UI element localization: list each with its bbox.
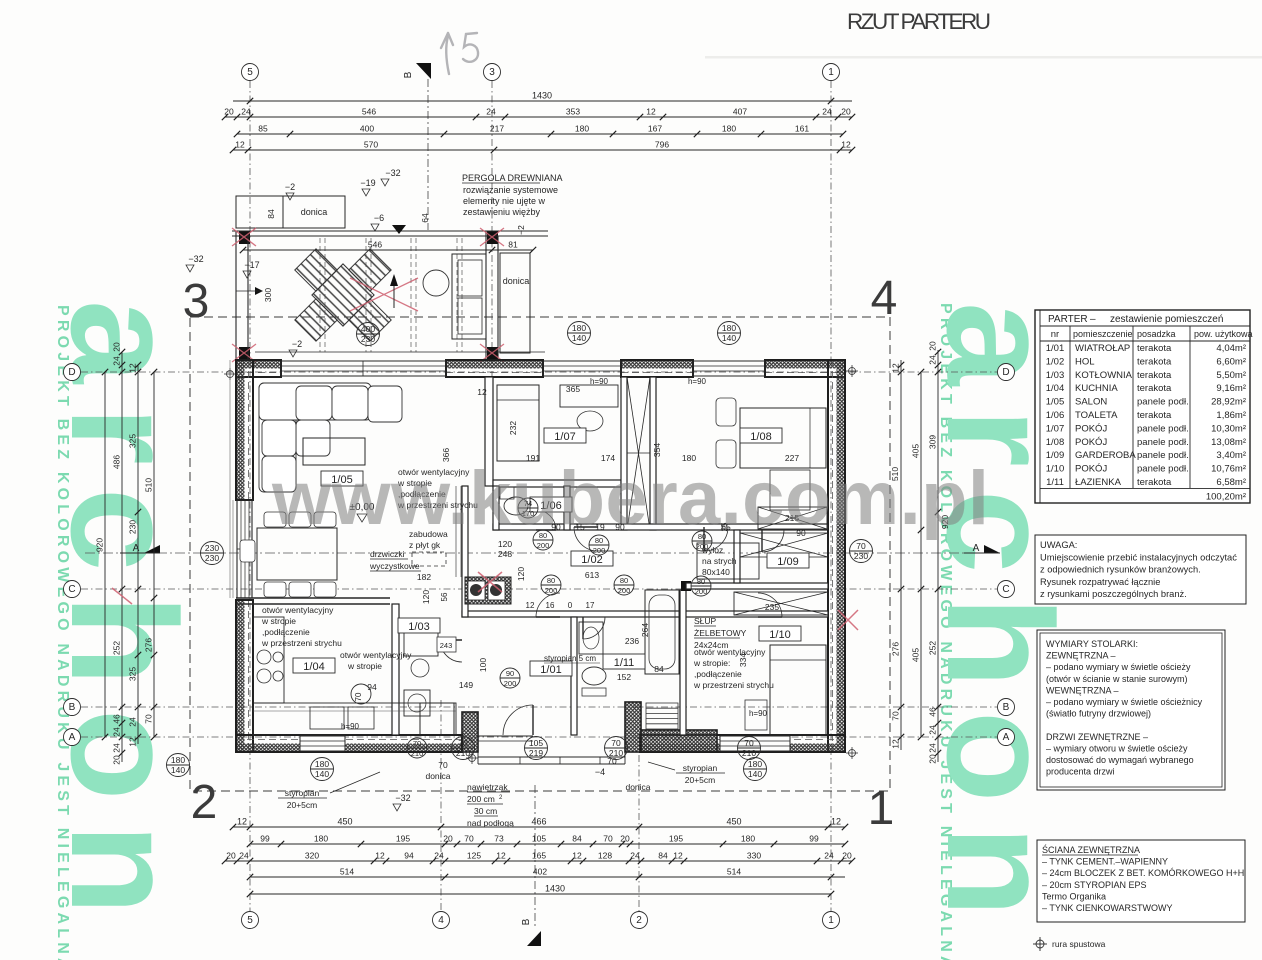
svg-text:1/04: 1/04 — [1046, 383, 1065, 394]
svg-text:230: 230 — [205, 553, 219, 563]
svg-text:1/09: 1/09 — [1046, 450, 1065, 461]
svg-text:264: 264 — [640, 623, 650, 637]
svg-text:140: 140 — [748, 769, 762, 779]
svg-text:796: 796 — [655, 140, 669, 150]
concrete column slup — [681, 581, 691, 591]
svg-text:514: 514 — [727, 867, 741, 877]
svg-text:PERGOLA DREWNIANA: PERGOLA DREWNIANA — [462, 173, 563, 183]
svg-text:−19: −19 — [360, 178, 375, 188]
pergola posts — [239, 231, 250, 244]
svg-text:1/08: 1/08 — [1046, 437, 1065, 448]
svg-text:252: 252 — [928, 641, 938, 655]
svg-text:20: 20 — [443, 834, 453, 844]
svg-text:70: 70 — [744, 738, 754, 748]
svg-text:w przestrzeni strychu: w przestrzeni strychu — [261, 638, 342, 648]
svg-text:320: 320 — [305, 851, 319, 861]
door kotlownia — [440, 640, 462, 662]
svg-text:200 cm: 200 cm — [467, 794, 495, 804]
svg-text:1/08: 1/08 — [750, 431, 771, 443]
svg-text:nawietrzak: nawietrzak — [467, 782, 508, 792]
svg-text:12: 12 — [526, 601, 535, 610]
svg-text:180: 180 — [748, 759, 762, 769]
svg-text:140: 140 — [572, 333, 586, 343]
svg-text:80x140: 80x140 — [702, 567, 730, 577]
svg-text:1/10: 1/10 — [769, 629, 790, 641]
svg-text:KUCHNIA: KUCHNIA — [1075, 383, 1118, 394]
svg-text:C: C — [1002, 584, 1009, 595]
pergola donica upper — [236, 196, 283, 228]
svg-text:24: 24 — [112, 727, 122, 737]
svg-text:4,04m²: 4,04m² — [1216, 343, 1246, 354]
svg-text:219: 219 — [529, 748, 543, 758]
section marker A right — [984, 545, 1000, 553]
svg-text:70: 70 — [354, 692, 363, 701]
svg-text:3: 3 — [489, 67, 495, 78]
pergola dimension 546 — [243, 249, 533, 251]
svg-text:10,76m²: 10,76m² — [1211, 464, 1246, 475]
svg-text:h=90: h=90 — [688, 377, 707, 386]
svg-text:WYMIARY STOLARKI:: WYMIARY STOLARKI: — [1046, 639, 1138, 649]
svg-text:24: 24 — [128, 717, 138, 727]
svg-text:B: B — [403, 71, 414, 78]
grid bubble 5 top — [242, 64, 259, 81]
toilet 1/06 wc — [504, 497, 528, 515]
room label 1/02 — [571, 551, 613, 566]
svg-text:terakota: terakota — [1137, 383, 1172, 394]
room label 1/08 — [740, 428, 782, 443]
svg-text:94: 94 — [404, 851, 414, 861]
svg-text:309: 309 — [928, 435, 938, 449]
svg-text:otwór wentylacyjny: otwór wentylacyjny — [340, 650, 412, 660]
svg-text:UWAGA:: UWAGA: — [1040, 540, 1077, 550]
svg-text:10,30m²: 10,30m² — [1211, 423, 1246, 434]
svg-text:w stropie: w stropie — [347, 661, 382, 671]
svg-text:80: 80 — [697, 577, 705, 586]
svg-text:1,86m²: 1,86m² — [1216, 410, 1246, 421]
svg-text:5: 5 — [247, 67, 253, 78]
svg-text:70: 70 — [891, 711, 901, 721]
grid bubble C left — [64, 581, 81, 598]
dimension column right 1 — [900, 360, 902, 750]
svg-text:46: 46 — [112, 714, 122, 724]
svg-text:1/04: 1/04 — [303, 661, 324, 673]
svg-text:152: 152 — [617, 672, 631, 682]
grid bubble C right — [998, 581, 1015, 598]
svg-text:236: 236 — [625, 636, 639, 646]
svg-text:12: 12 — [841, 140, 851, 150]
svg-text:514: 514 — [340, 867, 354, 877]
svg-text:407: 407 — [733, 107, 747, 117]
svg-text:325: 325 — [128, 667, 138, 681]
svg-text:546: 546 — [368, 240, 382, 250]
svg-text:16: 16 — [546, 601, 555, 610]
room label 1/10 — [759, 626, 801, 641]
grid bubble B left — [64, 699, 81, 716]
svg-text:405: 405 — [911, 648, 921, 662]
svg-text:z rysunkami poszczególnych bra: z rysunkami poszczególnych branż. — [1040, 589, 1187, 599]
svg-text:12: 12 — [673, 851, 683, 861]
svg-text:450: 450 — [337, 817, 352, 827]
svg-text:12: 12 — [831, 817, 841, 827]
svg-text:210: 210 — [411, 749, 424, 758]
svg-text:180: 180 — [572, 323, 586, 333]
svg-text:–: – — [1090, 314, 1096, 325]
svg-text:producenta drzwi: producenta drzwi — [1046, 767, 1115, 777]
svg-text:276: 276 — [891, 642, 901, 656]
door 1/07 — [574, 527, 598, 551]
svg-text:105: 105 — [532, 834, 546, 844]
grid bubble D right — [998, 364, 1015, 381]
svg-text:1/02: 1/02 — [1046, 356, 1065, 367]
svg-text:210: 210 — [609, 748, 623, 758]
svg-text:230: 230 — [854, 551, 868, 561]
svg-text:20: 20 — [112, 755, 122, 765]
corridor bottom wall — [462, 611, 828, 617]
garderoba 1/09 rod — [740, 533, 828, 557]
svg-text:0: 0 — [568, 601, 573, 610]
svg-text:70: 70 — [144, 714, 154, 724]
svg-text:120: 120 — [516, 567, 526, 581]
svg-text:nr: nr — [1051, 329, 1059, 340]
svg-text:140: 140 — [171, 765, 185, 775]
svg-text:PARTER: PARTER — [1048, 314, 1088, 325]
svg-text:pow. użytkowa: pow. użytkowa — [1194, 329, 1253, 339]
dimension row bottom 3 — [225, 860, 852, 862]
svg-text:−2: −2 — [285, 182, 295, 192]
svg-text:84: 84 — [658, 851, 668, 861]
section marker A left — [144, 545, 160, 553]
note box SCIANA ZEWNETRZNA — [1037, 840, 1245, 922]
duct lines — [455, 486, 457, 577]
svg-text:,podłączenie: ,podłączenie — [262, 627, 310, 637]
dimension row top 4 — [233, 149, 852, 151]
svg-text:na strych: na strych — [702, 556, 737, 566]
svg-text:rozwiązanie systemowe: rozwiązanie systemowe — [463, 185, 558, 195]
svg-text:styropian: styropian — [285, 788, 320, 798]
svg-text:terakota: terakota — [1137, 370, 1172, 381]
door 1/09 — [762, 530, 784, 552]
svg-text:20: 20 — [842, 851, 852, 861]
svg-text:rura spustowa: rura spustowa — [1052, 939, 1106, 949]
room label 1/05 — [321, 471, 363, 486]
svg-text:165: 165 — [532, 851, 546, 861]
svg-text:90: 90 — [506, 669, 514, 678]
room 1/07 desk — [560, 385, 618, 407]
grid bubble 5 bottom — [242, 912, 259, 929]
svg-text:9,16m²: 9,16m² — [1216, 383, 1246, 394]
svg-text:180: 180 — [722, 124, 736, 134]
svg-text:(otwór w ścianie w stanie suro: (otwór w ścianie w stanie surowym) — [1046, 674, 1188, 684]
salon dining table — [257, 528, 337, 580]
svg-text:450: 450 — [726, 817, 741, 827]
svg-text:510: 510 — [144, 478, 154, 492]
svg-text:,podłączenie: ,podłączenie — [694, 669, 742, 679]
svg-text:2: 2 — [636, 915, 642, 926]
grid bubble D left — [64, 364, 81, 381]
salon coffee table — [303, 438, 365, 465]
porch wall left — [462, 712, 478, 752]
svg-text:24: 24 — [928, 725, 938, 735]
svg-text:−32: −32 — [395, 793, 410, 803]
svg-text:20: 20 — [928, 754, 938, 764]
svg-text:20+5cm: 20+5cm — [685, 775, 715, 785]
grid bubble A left — [64, 729, 81, 746]
svg-text:210: 210 — [456, 748, 470, 758]
svg-text:A: A — [973, 543, 980, 554]
svg-text:– 20cm STYROPIAN EPS: – 20cm STYROPIAN EPS — [1042, 880, 1147, 890]
dimension column left 920 — [104, 372, 106, 737]
svg-text:www.kubera.com.pl: www.kubera.com.pl — [271, 456, 990, 541]
dimension row top 2 — [225, 116, 852, 118]
svg-text:182: 182 — [417, 572, 431, 582]
svg-text:12: 12 — [572, 851, 582, 861]
grid line 1 — [830, 81, 832, 911]
pergola table and chairs — [295, 249, 391, 341]
room 1/08 bed — [740, 408, 826, 468]
svg-text:styropian: styropian — [683, 763, 718, 773]
svg-text:12: 12 — [477, 387, 487, 397]
svg-text:SALON: SALON — [1075, 397, 1107, 408]
grid line B — [81, 706, 997, 708]
red cross marks interior — [112, 572, 858, 630]
svg-text:200: 200 — [545, 586, 558, 595]
note box WYMIARY STOLARKI — [1037, 630, 1225, 790]
grid line 4 bottom — [440, 700, 442, 911]
svg-text:−4: −4 — [595, 767, 605, 777]
svg-text:dostosować do wymagań wybraneg: dostosować do wymagań wybranego — [1046, 755, 1194, 765]
grid bubble 2 bottom — [631, 912, 648, 929]
svg-text:ŁAZIENKA: ŁAZIENKA — [1075, 477, 1122, 488]
door 1/10 — [758, 593, 782, 617]
svg-text:12: 12 — [128, 737, 138, 747]
svg-text:WEWNĘTRZNA –: WEWNĘTRZNA – — [1046, 685, 1119, 695]
svg-text:200: 200 — [593, 546, 606, 555]
svg-text:167: 167 — [648, 124, 662, 134]
door 1/08 — [704, 527, 728, 551]
svg-text:125: 125 — [467, 851, 481, 861]
svg-text:230: 230 — [205, 543, 219, 553]
svg-text:402: 402 — [533, 867, 547, 877]
svg-text:81: 81 — [508, 240, 518, 250]
svg-text:84: 84 — [572, 834, 582, 844]
svg-text:248: 248 — [498, 549, 512, 559]
svg-text:24: 24 — [239, 851, 249, 861]
svg-text:365: 365 — [566, 384, 580, 394]
svg-text:12: 12 — [128, 363, 138, 373]
grid bubble B right — [998, 699, 1015, 716]
svg-text:– 24cm BLOCZEK Z BET. KOMÓRKOW: – 24cm BLOCZEK Z BET. KOMÓRKOWEGO H+H — [1042, 868, 1244, 878]
wall salon right — [485, 377, 493, 486]
svg-text:232: 232 — [508, 421, 518, 435]
svg-text:140: 140 — [315, 769, 329, 779]
grid bubble 4 bottom — [433, 912, 450, 929]
svg-text:235: 235 — [765, 602, 779, 612]
svg-text:1/06: 1/06 — [1046, 410, 1065, 421]
wall salon/kitchen — [236, 597, 390, 599]
svg-text:1/09: 1/09 — [777, 556, 798, 568]
svg-text:ŻELBETOWY: ŻELBETOWY — [694, 628, 747, 638]
svg-text:300: 300 — [263, 288, 273, 302]
svg-text:RZUT PARTERU: RZUT PARTERU — [847, 9, 991, 34]
kotlownia equipment — [404, 630, 438, 656]
svg-text:Rysunek rozpatrywać łącznie: Rysunek rozpatrywać łącznie — [1040, 577, 1160, 587]
svg-text:– podano wymiary w świetle ośc: – podano wymiary w świetle ościeży — [1046, 662, 1191, 672]
svg-text:1/10: 1/10 — [1046, 464, 1065, 475]
room label 1/03 — [398, 618, 440, 633]
wall 1/07 bottom — [493, 480, 621, 487]
room label 1/06 — [530, 497, 572, 512]
dimension row bottom 5 — [250, 893, 831, 895]
svg-text:180: 180 — [722, 323, 736, 333]
svg-text:D: D — [1002, 367, 1009, 378]
corridor top wall — [493, 524, 828, 530]
svg-text:30 cm: 30 cm — [474, 806, 497, 816]
outer wall bottom — [236, 744, 462, 753]
room 1/10 bed — [770, 645, 826, 735]
room label 1/11 — [603, 654, 645, 669]
svg-text:w stropie: w stropie — [261, 616, 296, 626]
svg-text:149: 149 — [459, 680, 473, 690]
svg-text:20: 20 — [224, 107, 234, 117]
svg-text:64: 64 — [420, 213, 430, 223]
svg-text:24: 24 — [928, 355, 938, 365]
svg-text:570: 570 — [364, 140, 378, 150]
window top salon — [281, 360, 446, 362]
svg-text:12: 12 — [237, 817, 247, 827]
svg-text:128: 128 — [598, 851, 612, 861]
wall 1/10 top — [686, 583, 828, 589]
svg-text:1/03: 1/03 — [408, 621, 429, 633]
grid line 5 — [249, 81, 251, 911]
svg-text:h=90: h=90 — [749, 709, 768, 718]
svg-text:70: 70 — [438, 760, 448, 770]
svg-text:(światło futryny drzwiowej): (światło futryny drzwiowej) — [1046, 709, 1151, 719]
wall corridor left — [462, 486, 468, 617]
svg-text:920: 920 — [95, 538, 105, 552]
door 1/11 — [583, 617, 605, 639]
svg-text:99: 99 — [809, 834, 819, 844]
svg-text:GARDEROBA: GARDEROBA — [1075, 450, 1136, 461]
svg-text:230: 230 — [128, 520, 138, 534]
kitchen fridge — [420, 703, 454, 735]
porch slab — [478, 756, 625, 758]
svg-text:terakota: terakota — [1137, 477, 1172, 488]
svg-text:70: 70 — [464, 834, 474, 844]
bottom window thin lines porch — [478, 735, 533, 737]
svg-text:1: 1 — [828, 915, 834, 926]
svg-text:−2: −2 — [516, 225, 526, 235]
svg-text:140: 140 — [722, 333, 736, 343]
wardrobe 1/08 bottom — [758, 507, 827, 529]
outer wall top — [236, 360, 281, 369]
grid bubble A right — [998, 729, 1015, 746]
room 1/07 bed — [497, 385, 539, 461]
dimension column left 4 — [153, 372, 155, 737]
dimension column right 3 — [937, 350, 939, 762]
grid bubble 1 top — [823, 64, 840, 81]
svg-text:1: 1 — [828, 67, 834, 78]
svg-text:zestawieniu więżby: zestawieniu więżby — [463, 207, 541, 217]
handwritten pencil mark 15 — [441, 33, 453, 74]
svg-text:400: 400 — [360, 124, 374, 134]
svg-text:6,60m²: 6,60m² — [1216, 356, 1246, 367]
svg-text:195: 195 — [396, 834, 410, 844]
svg-text:200: 200 — [504, 679, 517, 688]
door 1/06 — [536, 510, 556, 530]
svg-text:84: 84 — [654, 664, 664, 674]
svg-text:334: 334 — [738, 653, 748, 667]
svg-text:12: 12 — [375, 851, 385, 861]
wall 1/11 right — [680, 590, 686, 735]
grid line 3 top — [491, 81, 493, 382]
svg-text:KOTŁOWNIA: KOTŁOWNIA — [1075, 370, 1133, 381]
svg-text:A: A — [69, 732, 76, 743]
svg-text:POKÓJ: POKÓJ — [1075, 423, 1107, 434]
svg-text:Umiejscowienie przebić instala: Umiejscowienie przebić instalacyjnych od… — [1040, 552, 1237, 562]
svg-text:panele podł.: panele podł. — [1137, 397, 1189, 408]
grid line D — [81, 371, 997, 373]
svg-text:6,58m²: 6,58m² — [1216, 477, 1246, 488]
outer wall right — [837, 360, 846, 752]
room label 1/09 — [767, 553, 809, 568]
svg-text:h=90: h=90 — [590, 377, 609, 386]
grid bubble 3 top — [484, 64, 501, 81]
terrace door left — [236, 500, 238, 598]
table PARTER room list — [1035, 310, 1253, 503]
note box UWAGA — [1035, 535, 1246, 604]
entry steps — [519, 757, 521, 764]
svg-text:TOALETA: TOALETA — [1075, 410, 1118, 421]
dimension column left 3 — [137, 365, 139, 744]
svg-text:85: 85 — [258, 124, 268, 134]
svg-text:180: 180 — [314, 834, 328, 844]
svg-text:– TYNK CEMENT.–WAPIENNY: – TYNK CEMENT.–WAPIENNY — [1042, 857, 1168, 867]
svg-text:24: 24 — [112, 743, 122, 753]
svg-text:1/02: 1/02 — [581, 554, 602, 566]
svg-text:200: 200 — [537, 541, 550, 550]
svg-text:−6: −6 — [374, 213, 384, 223]
svg-text:486: 486 — [112, 455, 122, 469]
bathroom 1/11 wc — [582, 667, 606, 685]
svg-text:252: 252 — [112, 641, 122, 655]
svg-text:−17: −17 — [244, 260, 259, 270]
svg-text:styropian 5 cm: styropian 5 cm — [544, 654, 596, 663]
pergola north arrow — [393, 280, 395, 308]
pergola red cross marks — [232, 228, 504, 362]
svg-text:24: 24 — [434, 851, 444, 861]
svg-text:−32: −32 — [188, 254, 203, 264]
dimension row top total 1430 — [233, 100, 852, 102]
svg-text:195: 195 — [669, 834, 683, 844]
bathroom 1/11 bathtub — [645, 590, 679, 674]
kitchen counter — [253, 617, 284, 703]
grid line C — [81, 588, 997, 590]
svg-text:panele podł.: panele podł. — [1137, 464, 1189, 475]
svg-text:180: 180 — [575, 124, 589, 134]
toilet 1/06 walls — [493, 486, 499, 530]
svg-text:3: 3 — [183, 275, 210, 328]
svg-text:217: 217 — [490, 124, 504, 134]
svg-text:180: 180 — [741, 834, 755, 844]
svg-text:terakota: terakota — [1137, 356, 1172, 367]
svg-text:z odpowiednich rysunków branżo: z odpowiednich rysunków branżowych. — [1040, 565, 1201, 575]
svg-text:24: 24 — [630, 851, 640, 861]
svg-text:POKÓJ: POKÓJ — [1075, 464, 1107, 475]
pergola donica right — [500, 253, 530, 353]
svg-text:4: 4 — [871, 272, 898, 325]
porch wall right — [625, 702, 641, 752]
svg-text:70: 70 — [413, 739, 421, 748]
